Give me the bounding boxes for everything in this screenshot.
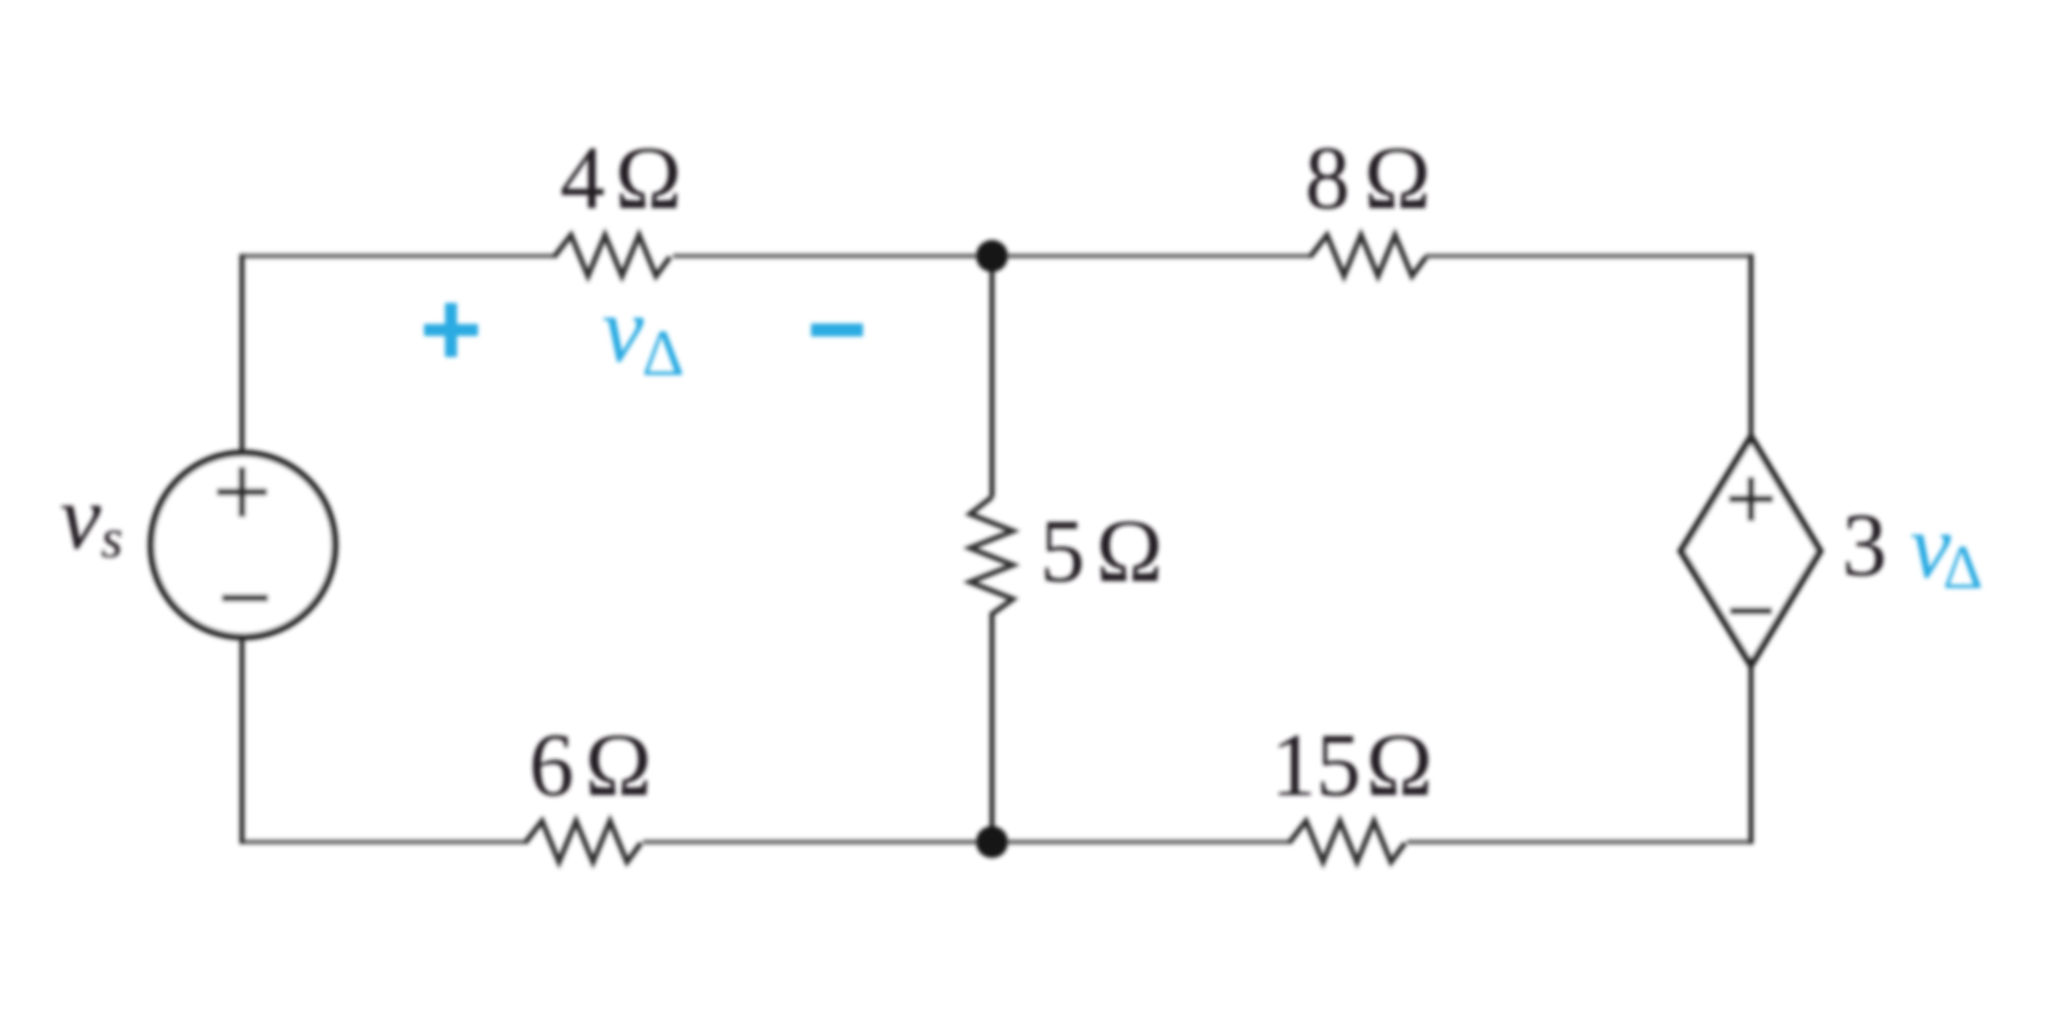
- svg-text:3: 3: [1842, 496, 1887, 595]
- label plus vDelta annotation: [424, 303, 478, 357]
- svg-text:6: 6: [529, 716, 574, 815]
- wire top-right horizontal segment: [1425, 254, 1751, 259]
- dependent source minus sign: [1730, 608, 1772, 615]
- label 8 ohm: [1305, 129, 1431, 228]
- svg-text:Δ: Δ: [1943, 534, 1983, 602]
- wire left vertical upper segment: [240, 254, 245, 455]
- svg-text:v: v: [602, 278, 644, 382]
- wire left vertical lower segment: [240, 636, 245, 844]
- svg-text:Δ: Δ: [642, 317, 684, 390]
- wire bottom-middle horizontal segment: [643, 840, 992, 845]
- wire top-right-inner horizontal segment: [992, 254, 1311, 259]
- label vs: [60, 466, 123, 570]
- wire right vertical lower segment: [1749, 663, 1754, 844]
- dependent source 3vDelta diamond: [1681, 437, 1820, 665]
- svg-text:4: 4: [560, 129, 605, 228]
- dependent source plus sign: [1729, 477, 1773, 521]
- node junction dot bottom: [976, 826, 1008, 858]
- svg-text:5: 5: [1040, 502, 1085, 601]
- wire bottom-right-inner horizontal segment: [992, 840, 1290, 845]
- svg-text:s: s: [101, 508, 123, 570]
- svg-text:Ω: Ω: [615, 129, 682, 228]
- resistor 8ohm zigzag: [1310, 235, 1426, 276]
- svg-text:Ω: Ω: [1096, 502, 1163, 601]
- voltage source vs circle: [151, 453, 335, 637]
- svg-text:v: v: [60, 466, 101, 568]
- label 6 ohm: [529, 716, 652, 815]
- label 15 ohm: [1271, 716, 1433, 815]
- resistor 4ohm zigzag: [554, 235, 670, 276]
- wire bottom-right horizontal segment: [1407, 840, 1751, 845]
- voltage source plus sign: [217, 467, 267, 517]
- wire middle vertical upper segment: [990, 256, 995, 497]
- svg-text:Ω: Ω: [1366, 716, 1433, 815]
- svg-text:15: 15: [1271, 716, 1361, 815]
- wire top-middle horizontal segment: [673, 254, 992, 259]
- svg-text:8: 8: [1305, 129, 1350, 228]
- wire top-left horizontal segment: [242, 254, 556, 259]
- label vDelta annotation: [602, 278, 684, 390]
- svg-text:Ω: Ω: [585, 716, 652, 815]
- label 3 vDelta gain: [1842, 495, 1983, 602]
- wire middle vertical lower segment: [990, 612, 995, 842]
- resistor 6ohm zigzag: [525, 821, 641, 862]
- label minus vDelta annotation: [811, 324, 863, 337]
- label 5 ohm: [1040, 502, 1163, 601]
- wire bottom-left horizontal segment: [243, 840, 527, 845]
- resistor 5ohm zigzag (vertical): [970, 497, 1013, 614]
- resistor 15ohm zigzag: [1289, 821, 1405, 862]
- svg-text:Ω: Ω: [1364, 129, 1431, 228]
- voltage source minus sign: [222, 595, 268, 602]
- wire right vertical upper segment: [1749, 254, 1754, 440]
- label 4 ohm: [560, 129, 682, 228]
- node junction dot top: [976, 240, 1008, 272]
